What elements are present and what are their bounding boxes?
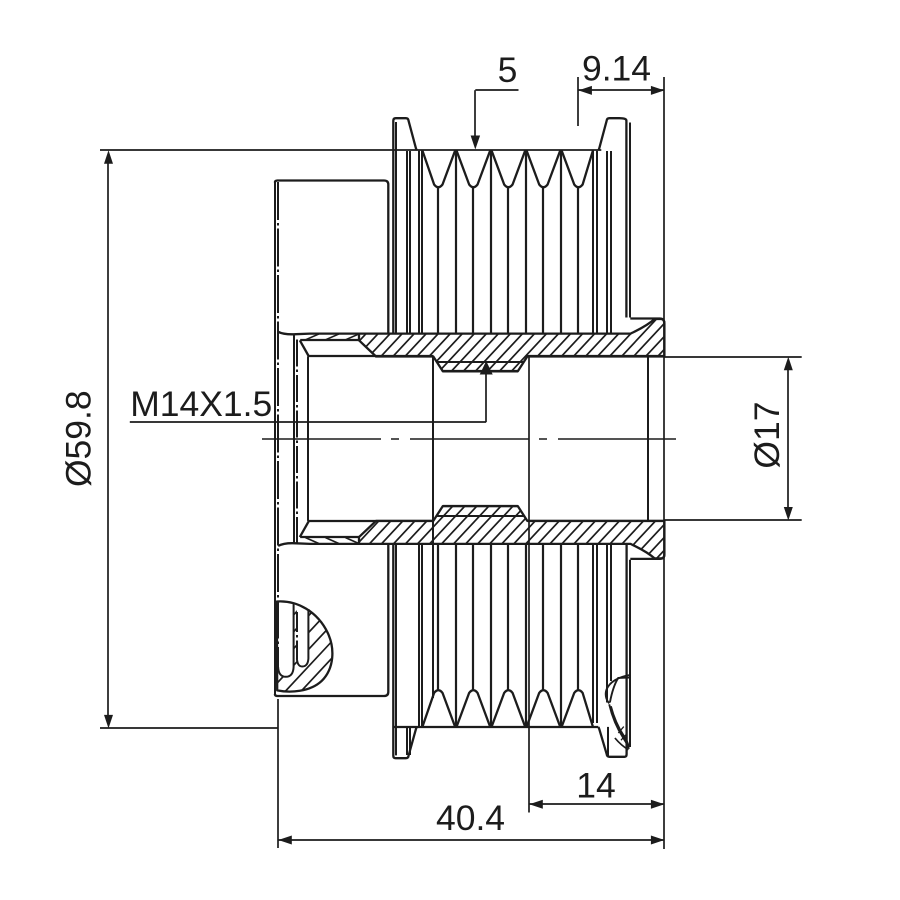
svg-text:5: 5 — [498, 50, 518, 90]
svg-text:Ø59.8: Ø59.8 — [59, 390, 99, 487]
svg-text:M14X1.5: M14X1.5 — [130, 384, 272, 424]
svg-text:Ø17: Ø17 — [747, 401, 787, 468]
svg-text:14: 14 — [576, 766, 616, 806]
svg-text:40.4: 40.4 — [436, 798, 505, 838]
svg-text:9.14: 9.14 — [582, 49, 651, 89]
